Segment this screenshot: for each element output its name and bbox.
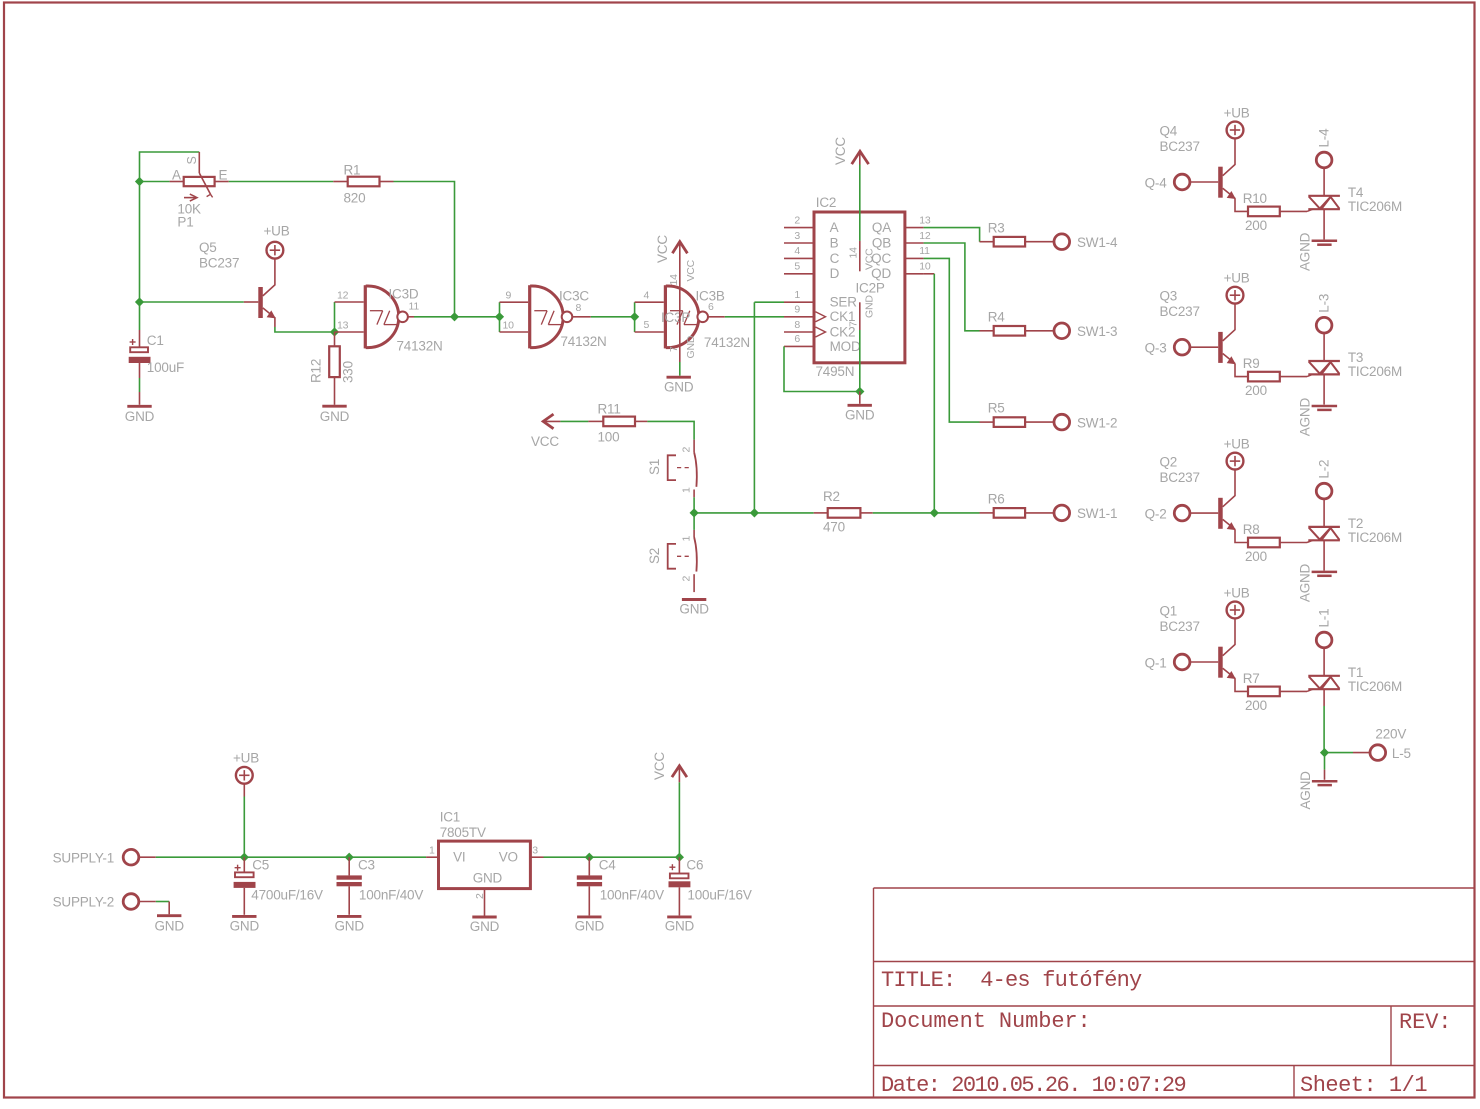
svg-text:Date: 2010.05.26. 10:07:29: Date: 2010.05.26. 10:07:29: [881, 1073, 1186, 1098]
op-amp gate IC3C output pin 8: [572, 316, 591, 318]
switch S2 actuator: [668, 544, 676, 569]
capacitor C5 bottom pin: [243, 888, 245, 915]
svg-text:SW1-3: SW1-3: [1077, 324, 1117, 339]
triac T4 TIC206M: [1308, 195, 1340, 197]
triac T1 MT1 pin: [1323, 689, 1325, 706]
node junction C4: [585, 853, 594, 862]
node junction IC3D output: [450, 312, 459, 321]
svg-text:IC1: IC1: [440, 810, 460, 825]
svg-text:VO: VO: [499, 850, 518, 865]
wire Q5 base rail: [139, 182, 141, 303]
svg-text:TIC206M: TIC206M: [1348, 530, 1402, 545]
svg-text:GND: GND: [685, 335, 697, 358]
svg-text:T2: T2: [1348, 516, 1363, 531]
svg-text:1: 1: [429, 845, 435, 857]
svg-text:200: 200: [1245, 383, 1267, 398]
capacitor C1 100uF polarized: [130, 341, 136, 343]
resistor R11: [603, 417, 635, 427]
svg-text:+UB: +UB: [1224, 271, 1250, 286]
IC2 pin 2 A: [784, 227, 814, 229]
svg-text:12: 12: [337, 290, 349, 302]
wire QA-QD to R5: [924, 258, 980, 422]
wire node to S2: [693, 513, 695, 530]
transistor Q5 BC237: [258, 287, 263, 318]
switch S2 bottom pin: [693, 574, 695, 592]
triac T4 MT1 to AGND: [1323, 209, 1325, 239]
svg-text:VCC: VCC: [864, 248, 876, 270]
resistor R11 right pin: [635, 420, 647, 422]
potentiometer P1 body: [184, 177, 215, 186]
svg-text:S2: S2: [647, 548, 662, 564]
wire VCC riser at C6: [678, 782, 680, 857]
resistor R9: [1248, 372, 1280, 382]
svg-text:IC3D: IC3D: [389, 287, 419, 302]
svg-text:C5: C5: [252, 858, 269, 873]
svg-text:R11: R11: [598, 402, 621, 417]
svg-text:470: 470: [823, 520, 845, 535]
IC2 pin 3 B: [784, 242, 814, 244]
IC2 pin 11 QC: [905, 257, 924, 259]
svg-text:TIC206M: TIC206M: [1348, 679, 1402, 694]
svg-text:IC2P: IC2P: [856, 281, 885, 296]
resistor R7 right pin: [1280, 690, 1307, 692]
svg-text:AGND: AGND: [1298, 232, 1313, 271]
IC1 pin 3 VO: [530, 856, 543, 858]
ground GND below C5: [232, 915, 256, 918]
ground GND below IC3B: [667, 376, 691, 379]
node junction L-5 / AGND: [1320, 748, 1329, 757]
svg-text:R8: R8: [1243, 522, 1260, 537]
switch S2 top pin: [693, 530, 695, 537]
supply +UB symbol at Q3: [1227, 287, 1244, 304]
resistor R4 left pin: [980, 330, 994, 332]
IC2 pin 6 MOD: [784, 345, 814, 347]
svg-text:R6: R6: [988, 492, 1005, 507]
svg-text:A: A: [830, 220, 839, 235]
capacitor C4 top pin: [588, 857, 590, 875]
svg-text:AGND: AGND: [1298, 398, 1313, 437]
resistor R2 right pin: [860, 512, 872, 514]
wire IC3P to GND: [679, 362, 681, 376]
svg-text:100: 100: [598, 430, 620, 445]
connector Q-3: [1174, 339, 1190, 355]
svg-text:Q4: Q4: [1160, 124, 1178, 139]
svg-text:T1: T1: [1348, 665, 1363, 680]
switch S1 bottom pin: [693, 490, 695, 498]
resistor R10 right pin: [1280, 210, 1307, 212]
svg-text:1: 1: [681, 536, 693, 542]
svg-text:VCC: VCC: [685, 259, 697, 281]
svg-text:T4: T4: [1348, 185, 1364, 200]
svg-text:4: 4: [644, 290, 650, 302]
svg-text:GND: GND: [665, 919, 695, 934]
power VCC arrow above IC3B: [672, 242, 687, 254]
wire R2 to QD node: [873, 512, 935, 514]
op-amp gate IC3D input pin 13: [335, 331, 364, 333]
switch S1 top pin: [693, 440, 695, 453]
resistor R12 top pin: [334, 332, 336, 346]
ground GND below SUPPLY-2: [157, 914, 181, 917]
ground AGND below T4: [1312, 240, 1338, 243]
svg-text:BC237: BC237: [1160, 139, 1200, 154]
triac T3 MT2 pin: [1323, 332, 1325, 361]
connector L-1: [1316, 632, 1332, 648]
connector L-4: [1316, 152, 1332, 168]
svg-text:Q-3: Q-3: [1145, 341, 1167, 356]
wire T1 MT1 to L-5 node: [1323, 706, 1325, 753]
svg-text:5: 5: [644, 319, 650, 331]
wire IC2 GND down: [859, 330, 861, 392]
nand gate IC3D 74132N: [364, 285, 367, 348]
resistor R5: [994, 417, 1025, 427]
svg-text:100uF: 100uF: [147, 360, 184, 375]
IC2 pin 7 GND stub: [859, 302, 861, 330]
svg-text:L-3: L-3: [1317, 294, 1332, 313]
nand gate IC3C 74132N: [528, 285, 531, 348]
node junction IC2 GND / MOD: [855, 387, 864, 396]
supply +UB symbol at Q4: [1227, 122, 1244, 139]
resistor R5 right pin: [1025, 421, 1055, 423]
resistor R4 right pin: [1025, 330, 1055, 332]
capacitor C1 bottom pin: [139, 363, 141, 378]
node junction pot-A / C1 / Q5 net: [135, 177, 144, 186]
node junction C6: [675, 853, 684, 862]
capacitor C6 top pin: [678, 857, 680, 873]
switch S2 lever: [694, 537, 697, 572]
triac T2 TIC206M: [1308, 526, 1340, 528]
svg-text:100uF/16V: 100uF/16V: [687, 888, 751, 903]
resistor R9 right pin: [1280, 376, 1307, 378]
transistor Q2 BC237: [1223, 469, 1235, 507]
IC2 pin 4 C: [784, 257, 814, 259]
triac T3 MT1 to AGND: [1323, 374, 1325, 404]
transistor Q3 BC237: [1223, 303, 1235, 341]
svg-text:14: 14: [848, 247, 860, 259]
svg-text:2: 2: [681, 576, 693, 582]
svg-text:Q-2: Q-2: [1145, 506, 1167, 521]
svg-text:820: 820: [344, 191, 366, 206]
svg-text:74132N: 74132N: [397, 339, 443, 354]
resistor R1: [348, 177, 380, 187]
IC2 pin 13 QA: [905, 227, 924, 229]
wire to IC3C inputs: [455, 316, 500, 318]
svg-text:8: 8: [794, 319, 800, 331]
capacitor C3 top pin: [348, 857, 350, 875]
wire pot E to R1: [229, 181, 334, 183]
connector SUPPLY-2: [123, 894, 139, 910]
wire +UB to rail: [243, 783, 245, 796]
ground GND below IC2: [848, 404, 872, 407]
svg-text:4700uF/16V: 4700uF/16V: [251, 888, 323, 903]
resistor R6 right pin: [1025, 512, 1055, 514]
svg-text:13: 13: [337, 320, 349, 332]
svg-text:+UB: +UB: [1224, 585, 1250, 600]
svg-text:4: 4: [794, 245, 800, 257]
svg-text:GND: GND: [230, 919, 260, 934]
svg-text:Sheet: 1/1: Sheet: 1/1: [1300, 1073, 1427, 1098]
supply +UB symbol at Q2: [1227, 453, 1244, 470]
svg-text:GND: GND: [473, 871, 503, 886]
svg-text:Document Number:: Document Number:: [881, 1009, 1091, 1034]
svg-text:AGND: AGND: [1298, 563, 1313, 602]
wire pot A to left rail: [140, 181, 170, 183]
wire VCC-left-top vertical/top segment to pot S: [140, 152, 200, 182]
resistor R1 left pin: [333, 181, 347, 183]
resistor R8 right pin: [1280, 542, 1307, 544]
wire QA-QD to R3: [924, 228, 980, 242]
capacitor C5 4700uF/16V polarized: [235, 867, 241, 869]
node junction S1/S2/R2: [690, 508, 699, 517]
transistor Q1 base pin: [1189, 661, 1218, 663]
svg-text:BC237: BC237: [1160, 304, 1200, 319]
svg-text:QA: QA: [872, 220, 891, 235]
svg-text:GND: GND: [845, 408, 875, 423]
capacitor C6 bottom pin: [678, 887, 680, 915]
IC2 pin 1 SER: [784, 301, 814, 303]
svg-text:R3: R3: [988, 221, 1005, 236]
connector SW1-1: [1054, 505, 1070, 521]
wire S1 to node: [693, 497, 695, 513]
wire base to Q5: [140, 301, 244, 303]
supply +UB symbol at C5: [236, 767, 253, 784]
svg-text:MOD: MOD: [830, 339, 861, 354]
wire R1 to IC3D output node: [394, 182, 455, 317]
svg-text:C3: C3: [358, 858, 375, 873]
triac T4 MT2 pin: [1323, 167, 1325, 196]
svg-text:Q5: Q5: [199, 240, 217, 255]
svg-text:BC237: BC237: [199, 256, 239, 271]
wire IC3B input tie vertical: [634, 302, 636, 332]
svg-text:7495N: 7495N: [816, 364, 855, 379]
svg-text:11: 11: [919, 245, 930, 257]
op-amp gate IC3C input pin 10: [500, 331, 529, 333]
svg-text:C4: C4: [599, 858, 617, 873]
resistor R5 left pin: [980, 421, 994, 423]
transistor Q5 base pin: [244, 301, 258, 303]
svg-text:200: 200: [1245, 218, 1267, 233]
svg-text:7: 7: [848, 321, 860, 327]
wire node to L-5: [1325, 752, 1354, 754]
connector L-5 pin: [1353, 752, 1371, 754]
svg-text:+UB: +UB: [263, 224, 289, 239]
wire VCC into IC2: [859, 165, 861, 241]
svg-text:BC237: BC237: [1160, 470, 1200, 485]
svg-text:A: A: [172, 168, 181, 183]
resistor R6 left pin: [980, 512, 994, 514]
IC IC1 7805TV pin 1 VI: [426, 856, 438, 858]
svg-text:+UB: +UB: [1224, 105, 1250, 120]
power pin rail through IC3B: [679, 242, 681, 362]
ground GND below C6: [667, 915, 691, 918]
svg-text:220V: 220V: [1375, 727, 1406, 742]
svg-text:VCC: VCC: [833, 137, 848, 165]
node junction C3: [345, 853, 354, 862]
svg-text:L-4: L-4: [1317, 128, 1332, 148]
svg-text:3: 3: [794, 230, 800, 242]
IC IC2 7495N box: [814, 212, 905, 363]
wire IC3C input tie vertical: [499, 302, 501, 332]
svg-text:330: 330: [341, 361, 356, 383]
svg-text:GND: GND: [125, 409, 155, 424]
svg-text:+UB: +UB: [233, 751, 259, 766]
resistor R11 left pin: [588, 420, 603, 422]
svg-text:100nF/40V: 100nF/40V: [359, 888, 423, 903]
switch S1 actuator: [668, 455, 676, 480]
op-amp gate IC3B output pin 6: [708, 316, 725, 318]
power VCC arrow above IC2: [852, 151, 869, 164]
resistor R9 left pin: [1235, 364, 1248, 377]
svg-text:200: 200: [1245, 698, 1267, 713]
svg-text:100nF/40V: 100nF/40V: [600, 888, 664, 903]
svg-text:R7: R7: [1243, 671, 1260, 686]
supply +UB symbol at Q5: [267, 242, 284, 259]
triac T1 MT2 pin: [1323, 647, 1325, 676]
svg-text:2: 2: [794, 214, 800, 226]
svg-text:S: S: [185, 156, 199, 164]
resistor R12 330 vertical: [329, 346, 340, 377]
svg-text:C6: C6: [686, 858, 703, 873]
svg-text:200: 200: [1245, 549, 1267, 564]
svg-text:C1: C1: [147, 333, 164, 348]
resistor R3: [994, 237, 1025, 247]
svg-text:SW1-1: SW1-1: [1077, 506, 1117, 521]
potentiometer P1 E-pin: [215, 181, 229, 183]
wire MOD to GND net: [784, 346, 860, 391]
svg-text:10: 10: [919, 261, 931, 273]
triac T2 MT1 to AGND: [1323, 540, 1325, 570]
svg-text:BC237: BC237: [1160, 619, 1200, 634]
transistor Q4 BC237: [1223, 138, 1235, 176]
svg-text:TIC206M: TIC206M: [1348, 364, 1402, 379]
resistor R7 left pin: [1235, 678, 1248, 691]
svg-text:B: B: [830, 235, 839, 250]
wire supply rail to IC1: [156, 856, 426, 858]
op-amp gate IC3B input pin 5: [635, 331, 664, 333]
IC2 clock wedge CK1: [816, 312, 826, 322]
svg-text:R2: R2: [823, 489, 840, 504]
svg-text:GND: GND: [154, 919, 184, 934]
ground GND below C3: [337, 915, 361, 918]
svg-text:GND: GND: [334, 919, 364, 934]
node junction C5: [240, 853, 249, 862]
resistor R2: [828, 508, 861, 518]
svg-text:SUPPLY-1: SUPPLY-1: [53, 851, 114, 866]
svg-text:E: E: [219, 168, 228, 183]
resistor R7: [1248, 687, 1280, 697]
capacitor C5 top pin: [243, 857, 245, 872]
svg-text:2: 2: [681, 447, 693, 453]
connector SUPPLY-1 pin: [138, 856, 156, 858]
op-amp gate IC3D input pin 12: [335, 301, 364, 303]
svg-text:VCC: VCC: [531, 434, 559, 449]
wire QA-QD to R4: [924, 243, 980, 331]
svg-text:R1: R1: [344, 163, 361, 178]
svg-text:L-1: L-1: [1317, 609, 1332, 628]
svg-text:IC2: IC2: [816, 195, 836, 210]
IC1 pin 2 GND: [484, 889, 486, 916]
wire SER horizontal at pin 1: [754, 301, 784, 303]
resistor R1 right pin: [380, 181, 394, 183]
connector SUPPLY-1: [123, 849, 139, 865]
switch S1 lever: [694, 452, 697, 487]
resistor R10: [1248, 207, 1280, 217]
potentiometer P1 A-pin: [170, 181, 184, 183]
svg-text:VCC: VCC: [655, 235, 670, 263]
IC2 pin 9 CK1: [784, 316, 814, 318]
transistor Q4 base pin: [1189, 181, 1218, 183]
wire R11 to S1: [647, 421, 694, 439]
connector L-5: [1370, 745, 1386, 761]
wire QD down to R2 node: [924, 273, 935, 275]
wire IC3D input tie vertical: [334, 302, 336, 332]
svg-text:TIC206M: TIC206M: [1348, 199, 1402, 214]
svg-text:9: 9: [794, 304, 800, 316]
svg-text:SUPPLY-2: SUPPLY-2: [53, 895, 114, 910]
svg-text:TITLE: 4-es futófény: TITLE: 4-es futófény: [881, 968, 1142, 993]
svg-text:R12: R12: [309, 359, 324, 383]
capacitor C3 bottom pin: [348, 886, 350, 915]
IC IC1 7805TV box: [439, 841, 531, 889]
transistor Q2 base pin: [1189, 512, 1218, 514]
node junction emitter/R12/pin13: [330, 327, 339, 336]
connector SUPPLY-2 pin: [138, 901, 156, 903]
resistor R8 left pin: [1235, 529, 1248, 542]
resistor R3 left pin: [980, 241, 994, 243]
svg-text:5: 5: [794, 261, 800, 273]
svg-text:SW1-2: SW1-2: [1077, 415, 1117, 430]
svg-text:C: C: [830, 251, 840, 266]
triac T2 MT2 pin: [1323, 498, 1325, 527]
svg-text:8: 8: [576, 302, 582, 314]
connector SW1-2: [1054, 414, 1070, 430]
transistor Q3 base pin: [1189, 346, 1218, 348]
supply +UB symbol at Q1: [1227, 602, 1244, 619]
IC2 pin 5 D: [784, 273, 814, 275]
transistor Q1 BC237: [1223, 618, 1235, 656]
wire IC3C output to IC3B: [591, 316, 635, 318]
node junction QD/R2/R6: [930, 508, 939, 517]
wire Q5 emitter to R12 node: [275, 327, 335, 332]
svg-text:7805TV: 7805TV: [440, 825, 486, 840]
svg-text:L-5: L-5: [1392, 746, 1411, 761]
IC2 pin 12 QB: [905, 242, 924, 244]
svg-text:R5: R5: [988, 401, 1005, 416]
svg-text:GND: GND: [575, 919, 605, 934]
svg-text:1: 1: [794, 289, 800, 301]
node junction IC3B input tie: [630, 312, 639, 321]
svg-text:T3: T3: [1348, 350, 1363, 365]
ground AGND below T2: [1312, 571, 1338, 574]
IC2 GND pin to ground: [859, 392, 861, 404]
connector Q-4: [1174, 174, 1190, 190]
svg-text:GND: GND: [470, 919, 500, 934]
power VCC arrow left of R11: [543, 414, 553, 429]
svg-text:AGND: AGND: [1298, 771, 1313, 810]
svg-text:+UB: +UB: [1224, 437, 1250, 452]
connector SW1-4: [1054, 234, 1070, 250]
wire node to AGND: [1324, 753, 1326, 770]
IC2 pin 14 VCC stub: [859, 241, 861, 271]
svg-text:P1: P1: [177, 215, 193, 230]
svg-text:12: 12: [919, 230, 931, 242]
capacitor C1 top pin: [139, 302, 141, 330]
svg-text:2: 2: [474, 893, 486, 899]
connector L-2: [1316, 483, 1332, 499]
svg-text:R9: R9: [1243, 356, 1260, 371]
svg-text:REV:: REV:: [1399, 1010, 1451, 1035]
svg-text:L-2: L-2: [1317, 460, 1332, 479]
svg-text:GND: GND: [320, 409, 350, 424]
